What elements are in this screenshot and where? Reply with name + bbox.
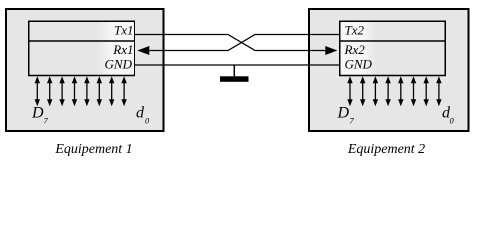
- svg-text:Rx1: Rx1: [112, 42, 133, 57]
- svg-text:Equipement 2: Equipement 2: [347, 142, 425, 157]
- equipment 2 UART register box: [340, 21, 446, 75]
- svg-text:d: d: [136, 105, 145, 122]
- svg-text:GND: GND: [105, 57, 133, 72]
- equipment 1 label backdrop: [98, 22, 134, 75]
- svg-text:Equipement 1: Equipement 1: [54, 142, 132, 157]
- equipment 2 label backdrop: [341, 22, 377, 75]
- equipment 1 Tx/Rx divider: [28, 40, 135, 42]
- wire Tx1 to Rx2: [135, 35, 326, 51]
- svg-text:Tx2: Tx2: [345, 23, 365, 38]
- ground stub: [233, 65, 235, 76]
- svg-text:GND: GND: [345, 57, 373, 72]
- ground bar: [220, 76, 249, 82]
- svg-text:Tx1: Tx1: [114, 23, 134, 38]
- wire Tx2 to Rx1: [150, 35, 340, 51]
- arrowhead into Rx1: [137, 46, 149, 55]
- GND wire: [135, 64, 339, 66]
- arrowhead into Rx2: [325, 46, 337, 55]
- equipment 1 UART register box: [29, 21, 135, 75]
- svg-text:D: D: [31, 105, 44, 122]
- data bus double-arrows equipment 2: [347, 76, 441, 106]
- svg-text:D: D: [337, 105, 350, 122]
- data bus double-arrows equipment 1: [35, 76, 127, 106]
- equipment 2 outer box: [309, 9, 469, 131]
- equipment 1 outer box: [6, 9, 164, 131]
- svg-text:Rx2: Rx2: [344, 42, 366, 57]
- equipment 2 Tx/Rx divider: [339, 40, 446, 42]
